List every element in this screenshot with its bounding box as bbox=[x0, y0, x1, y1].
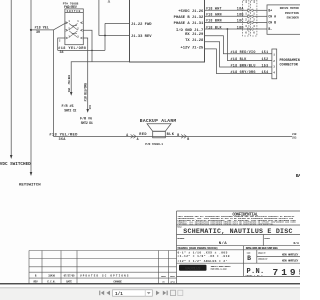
svg-text:36A: 36A bbox=[59, 138, 67, 142]
svg-text:MATERIAL: MATERIAL bbox=[177, 237, 185, 240]
junction on yel/org bbox=[91, 50, 93, 52]
connector P2 contact pair row 2 bbox=[248, 15, 253, 18]
node KEYSWITCH arrow bbox=[19, 172, 41, 187]
label #18 BLK 18D bbox=[206, 26, 244, 30]
svg-text:154: 154 bbox=[262, 71, 269, 75]
svg-text:BACKUP ALARM: BACKUP ALARM bbox=[140, 118, 177, 124]
toolbar extra icon 1 bbox=[171, 290, 176, 295]
svg-text:POSITION: POSITION bbox=[285, 12, 299, 15]
controller board outline U1 bbox=[130, 0, 205, 62]
label SIZE B bbox=[247, 251, 252, 262]
node F/R 6 arrow bbox=[86, 109, 89, 113]
wire switch pin2 right drop bbox=[83, 30, 92, 62]
encoder U2 name bbox=[280, 7, 299, 19]
svg-text:J1-22 FWD: J1-22 FWD bbox=[131, 23, 152, 27]
svg-text:7195: 7195 bbox=[273, 267, 301, 278]
svg-text:NAUTILUS: NAUTILUS bbox=[185, 266, 201, 270]
svg-text:17A: 17A bbox=[89, 105, 92, 110]
wire encoder CH B bbox=[253, 21, 267, 23]
junction keyswitch tap bbox=[30, 29, 32, 31]
wire #18 YEL 30 bbox=[31, 29, 53, 31]
label A A bbox=[126, 133, 138, 141]
wire encoder CH A bbox=[253, 15, 267, 17]
svg-text:UPDATED SC OPTIONS: UPDATED SC OPTIONS bbox=[80, 275, 130, 278]
svg-text:152: 152 bbox=[262, 58, 269, 62]
svg-text:<12" ± 1/2" ANGLES ± 2°: <12" ± 1/2" ANGLES ± 2° bbox=[178, 259, 228, 263]
toolbar extra icon 2 bbox=[178, 290, 183, 295]
switch S1 FWD/REV label bbox=[63, 2, 79, 9]
svg-text:253: 253 bbox=[292, 137, 297, 140]
connector pair A backup alarm bbox=[131, 135, 136, 139]
connector J3 name bbox=[280, 59, 302, 67]
label #18 BRN/BLU 153 bbox=[231, 63, 269, 68]
svg-text:SHT2 C2: SHT2 C2 bbox=[64, 109, 76, 113]
svg-text:B-: B- bbox=[268, 27, 272, 31]
encoder U2 pin labels bbox=[268, 8, 276, 31]
svg-text:153: 153 bbox=[262, 64, 269, 68]
svg-text:CH B: CH B bbox=[268, 21, 276, 25]
svg-text:#18 BRN: #18 BRN bbox=[206, 20, 222, 24]
node F/R 5 arrow bbox=[70, 92, 73, 96]
svg-text:2VDC SWITCHED: 2VDC SWITCHED bbox=[0, 162, 31, 167]
svg-text:E.C.N.: E.C.N. bbox=[47, 280, 55, 283]
svg-text:#18 RED/VIO: #18 RED/VIO bbox=[231, 50, 256, 55]
svg-text:1/1: 1/1 bbox=[115, 292, 123, 297]
svg-text:SHT2 D1: SHT2 D1 bbox=[81, 121, 93, 125]
revision table bbox=[29, 251, 177, 284]
label B B bbox=[177, 133, 189, 141]
viewer toolbar background bbox=[0, 288, 300, 300]
connector P2 contact pair row 1 bbox=[248, 9, 253, 12]
svg-text:P/N 72036-1: P/N 72036-1 bbox=[145, 142, 163, 146]
node VDC SWITCHED arrow bbox=[0, 155, 31, 167]
encoder U2 body bbox=[267, 5, 301, 34]
svg-text:N/A: N/A bbox=[219, 241, 227, 246]
svg-text:16A: 16A bbox=[68, 87, 71, 92]
svg-text:RX J1-29: RX J1-29 bbox=[185, 33, 204, 37]
label #18 253 wire end bbox=[292, 133, 297, 139]
switch S1 body bbox=[65, 9, 83, 45]
title block frame bbox=[177, 211, 301, 284]
toolbar prev page button bbox=[106, 291, 110, 296]
wire diagonal into switch pin 1 bbox=[53, 23, 66, 30]
wire #18 YEL/RED 36A long run bbox=[53, 135, 292, 137]
wire RX row bbox=[205, 36, 272, 54]
wire blu run bbox=[71, 62, 129, 93]
wire riser to FWD bbox=[104, 23, 106, 50]
svg-text:#18 BRN/BLU: #18 BRN/BLU bbox=[231, 63, 256, 68]
svg-text:A: A bbox=[126, 133, 128, 137]
label #18 WHT 18A bbox=[206, 8, 245, 12]
svg-text:REV: REV bbox=[33, 280, 38, 283]
svg-text:PHASE A J1-31: PHASE A J1-31 bbox=[174, 22, 204, 26]
switch S1 contacts left bbox=[66, 22, 68, 39]
svg-text:KEN HARTLEY: KEN HARTLEY bbox=[282, 260, 299, 263]
svg-text:PHASE B J1-32: PHASE B J1-32 bbox=[174, 16, 204, 20]
svg-text:TX J1-28: TX J1-28 bbox=[185, 39, 204, 43]
svg-text:#18 GRY/ORG: #18 GRY/ORG bbox=[231, 70, 256, 75]
svg-text:#18 BLK: #18 BLK bbox=[206, 26, 223, 30]
switch S1 pin numbers bbox=[68, 20, 79, 38]
label DRAWN BY bbox=[258, 252, 299, 257]
svg-text:B: B bbox=[247, 255, 251, 262]
svg-text:BLK: BLK bbox=[167, 133, 175, 137]
wire BLK drop to programming pin2 bbox=[227, 29, 272, 61]
svg-text:#18 WHT: #18 WHT bbox=[206, 8, 222, 12]
svg-text:#18 BLK: #18 BLK bbox=[231, 58, 248, 62]
label #18 RED/VIO 151 bbox=[231, 50, 269, 55]
label #18 YEL 30 bbox=[35, 27, 49, 35]
revision row B text bbox=[35, 274, 176, 278]
svg-text:>1-12" ± 1/8" .XX ± .010: >1-12" ± 1/8" .XX ± .010 bbox=[178, 254, 230, 258]
connector P2 contact pair row 3 bbox=[248, 21, 253, 24]
svg-text:+5VDC J1-26: +5VDC J1-26 bbox=[178, 10, 204, 14]
wire +5VDC row bbox=[205, 9, 248, 11]
svg-text:30: 30 bbox=[36, 31, 40, 35]
label #18 YEL/RED 36A bbox=[49, 132, 78, 142]
connector P2 pin numbers bbox=[245, 1, 255, 34]
svg-text:KEN HARTLEY: KEN HARTLEY bbox=[282, 254, 299, 257]
svg-text:PADRE CREEK, IL 43140: PADRE CREEK, IL 43140 bbox=[211, 268, 228, 271]
wire I/O GND row bbox=[205, 28, 248, 30]
label MATERIAL N/A bbox=[177, 237, 227, 246]
wire encoder B+ bbox=[253, 9, 267, 11]
confidential legal text bbox=[178, 215, 297, 225]
speaker LS1 horn bbox=[147, 124, 171, 132]
svg-text:BA: BA bbox=[296, 173, 300, 179]
svg-text:#18 BLU: #18 BLU bbox=[68, 75, 71, 85]
label CHECKED BY bbox=[258, 257, 299, 262]
svg-text:SCHEMATIC, NAUTILUS E DISC: SCHEMATIC, NAUTILUS E DISC bbox=[183, 228, 292, 235]
toolbar next page button bbox=[156, 291, 160, 296]
svg-text:B: B bbox=[177, 133, 179, 137]
svg-text:SHEET 1 OF 3: SHEET 1 OF 3 bbox=[246, 274, 264, 277]
svg-text:N/A: N/A bbox=[294, 241, 300, 245]
nautilus logo bbox=[179, 265, 207, 271]
svg-text:+12V J1-25: +12V J1-25 bbox=[181, 46, 205, 50]
wire TX row bbox=[205, 42, 272, 67]
connector P2 encoder plug halves bbox=[243, 1, 257, 37]
svg-text:FWD/REV: FWD/REV bbox=[64, 5, 77, 9]
svg-text:TOLERANCES (UNLESS OTHERWISE S: TOLERANCES (UNLESS OTHERWISE SPECIFIED) bbox=[177, 247, 217, 250]
wire switch pin3 right to F/R 6 bbox=[83, 38, 87, 110]
svg-text:KEYSWITCH: KEYSWITCH bbox=[19, 183, 41, 187]
label FINISH N/A bbox=[264, 237, 299, 245]
wire #18 YEL/ORG run bbox=[58, 49, 105, 51]
svg-text:REMOVE BURRS AND BREAK SHARP E: REMOVE BURRS AND BREAK SHARP EDGES bbox=[246, 247, 279, 250]
svg-text:34: 34 bbox=[60, 51, 64, 55]
wire keyswitch vertical bbox=[30, 0, 32, 173]
svg-text:151: 151 bbox=[262, 51, 269, 55]
connector pair B backup alarm bbox=[181, 135, 186, 139]
switch S1 crossover wiring bbox=[69, 24, 78, 38]
svg-text:SWITCH: SWITCH bbox=[67, 10, 81, 13]
svg-text:#18 YEL/RED: #18 YEL/RED bbox=[49, 132, 78, 137]
wire +12VDC switched vertical bbox=[10, 0, 12, 156]
junction FWD riser on REV bbox=[104, 35, 106, 37]
label F/R #5 SHT2 C2 bbox=[62, 104, 77, 113]
wire switch pin3 left to yel/org bbox=[58, 38, 65, 50]
speaker LS1 driver bbox=[153, 131, 166, 138]
toolbar last page button bbox=[163, 291, 168, 296]
svg-text:B+: B+ bbox=[268, 8, 272, 12]
junction BLK tap bbox=[227, 28, 229, 30]
svg-text:DRAWN BY: DRAWN BY bbox=[258, 252, 266, 255]
tolerance table text bbox=[178, 251, 230, 263]
svg-text:CHECKED BY: CHECKED BY bbox=[258, 257, 268, 260]
svg-text:#18 BLU/ORG: #18 BLU/ORG bbox=[84, 83, 88, 102]
connector J3 programming body bbox=[272, 49, 277, 79]
switch S1 contacts right bbox=[81, 22, 83, 39]
label #18 GRN 18B bbox=[206, 14, 244, 18]
wire REV from top bbox=[98, 0, 100, 36]
wire PHASE A row bbox=[205, 21, 248, 23]
toolbar page input box bbox=[113, 290, 153, 297]
label F/R #6 SHT2 D1 bbox=[80, 116, 93, 125]
revision header row text bbox=[33, 280, 175, 283]
svg-text:A: A bbox=[137, 137, 139, 141]
logo address text bbox=[211, 265, 232, 271]
svg-text:DRIVE MOTOR: DRIVE MOTOR bbox=[280, 7, 299, 10]
svg-text:I/O GND J1-7: I/O GND J1-7 bbox=[176, 28, 204, 33]
svg-text:J1-33 REV: J1-33 REV bbox=[131, 35, 152, 39]
wire +12V row bbox=[205, 49, 272, 74]
svg-text:07/27/05: 07/27/05 bbox=[64, 274, 75, 278]
svg-text:18A: 18A bbox=[237, 8, 245, 12]
sheet bottom border bbox=[0, 283, 300, 284]
label #18 GRY/ORG 154 bbox=[231, 70, 269, 75]
label #18 BLK 152 bbox=[231, 58, 269, 62]
svg-text:CH A: CH A bbox=[268, 14, 276, 18]
svg-text:FURTHER, ALL INFORMATION CONTA: FURTHER, ALL INFORMATION CONTAINED HEREI… bbox=[178, 222, 275, 225]
svg-text:DATE: DATE bbox=[66, 280, 72, 283]
label #18 BRN 18C bbox=[206, 20, 244, 24]
toolbar first page button bbox=[99, 291, 104, 296]
svg-text:RED: RED bbox=[139, 133, 147, 137]
svg-text:CHANGE: CHANGE bbox=[113, 280, 122, 283]
wire encoder B- bbox=[253, 28, 267, 30]
svg-text:CONNECTOR: CONNECTOR bbox=[280, 64, 299, 68]
svg-text:#18 GRN: #18 GRN bbox=[206, 14, 222, 18]
svg-text:B: B bbox=[187, 137, 189, 141]
svg-text:33436: 33436 bbox=[48, 275, 55, 278]
svg-text:FINISH: FINISH bbox=[264, 237, 270, 240]
connector P2 contact pair row 4 bbox=[248, 28, 253, 31]
wire J1-33 REV bbox=[99, 35, 130, 37]
connector J3 pin numbers bbox=[273, 53, 275, 74]
wire vertical drop to yel/red run bbox=[52, 30, 54, 136]
svg-text:ENCODER: ENCODER bbox=[287, 16, 299, 19]
label #18 YEL/ORG 34 bbox=[58, 46, 86, 55]
wire PHASE B row bbox=[205, 15, 248, 17]
wire J1-22 FWD bbox=[105, 22, 130, 24]
